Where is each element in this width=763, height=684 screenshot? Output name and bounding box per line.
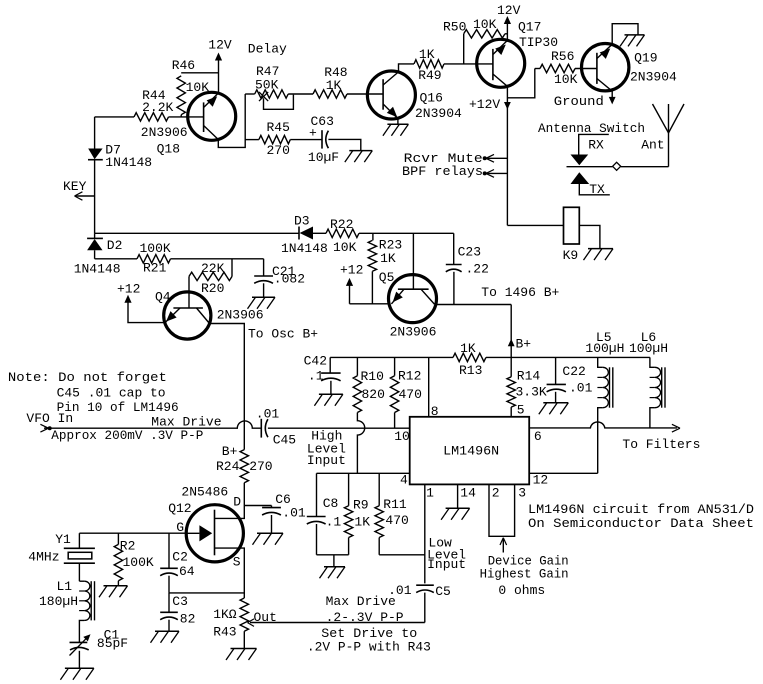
transistor Q19 2N3904	[582, 43, 678, 90]
svg-text:Out: Out	[254, 610, 277, 625]
svg-text:Ant: Ant	[641, 138, 664, 153]
wire B+ feed	[508, 305, 532, 377]
svg-text:R50: R50	[443, 19, 466, 34]
svg-text:0 ohms: 0 ohms	[498, 583, 545, 598]
svg-text:R45: R45	[267, 120, 290, 135]
svg-text:1N4148: 1N4148	[281, 241, 328, 256]
wire R56 to Q19 base	[575, 68, 597, 70]
svg-text:2N3906: 2N3906	[217, 308, 264, 323]
label Antenna Switch	[538, 121, 645, 136]
svg-text:4MHz: 4MHz	[28, 549, 59, 564]
svg-text:1K: 1K	[380, 251, 396, 266]
svg-text:K9: K9	[563, 248, 579, 263]
wire Q4 emitter to +12	[117, 281, 165, 322]
capacitor C6 .01	[244, 492, 306, 533]
wire pin 4 rail	[317, 472, 410, 487]
svg-text:1N4148: 1N4148	[105, 155, 152, 170]
svg-text:85pF: 85pF	[97, 636, 128, 651]
svg-text:C22: C22	[562, 364, 585, 379]
svg-text:B+: B+	[222, 444, 238, 459]
svg-text:R11: R11	[383, 497, 407, 512]
label Device Gain arrow	[480, 538, 569, 598]
svg-text:LM1496N: LM1496N	[443, 443, 499, 458]
svg-text:LM1496N circuit from AN531/D: LM1496N circuit from AN531/D	[528, 502, 754, 517]
svg-text:Pin 10 of LM1496: Pin 10 of LM1496	[57, 400, 179, 415]
wire to R56	[507, 69, 534, 98]
capacitor C5 .01	[388, 583, 451, 623]
resistor R46 10K	[172, 58, 219, 117]
wire drain lead	[168, 485, 244, 519]
svg-text:L1: L1	[57, 579, 73, 594]
svg-text:R14: R14	[517, 369, 541, 384]
svg-text:10K: 10K	[473, 17, 497, 32]
svg-text:R23: R23	[379, 237, 402, 252]
label Rcvr Mute arrow	[404, 151, 508, 166]
svg-text:.1: .1	[308, 368, 324, 383]
svg-text:R20: R20	[201, 281, 224, 296]
svg-text:Q4: Q4	[155, 289, 171, 304]
svg-text:R43: R43	[213, 624, 236, 639]
diode D7 1N4148	[88, 117, 152, 233]
wire R48 to Q16 base	[347, 93, 383, 95]
inductor L5 100uH	[585, 330, 624, 474]
svg-text:100µH: 100µH	[629, 341, 668, 356]
svg-text:C42: C42	[304, 354, 327, 369]
label KEY with arrow	[63, 179, 95, 200]
wire antenna switch line	[567, 166, 669, 168]
wire pins 2-3 gain strap	[489, 484, 526, 536]
svg-text:BPF relays: BPF relays	[402, 164, 483, 179]
svg-text:2N3904: 2N3904	[630, 70, 677, 85]
svg-text:1: 1	[426, 486, 434, 501]
diode D3 1N4148	[281, 214, 328, 257]
crystal Y1 4MHz	[28, 532, 95, 581]
svg-text:Q16: Q16	[420, 91, 443, 106]
wire oscillator gate line	[79, 532, 186, 534]
svg-text:Input: Input	[307, 453, 346, 468]
svg-text:3.3K: 3.3K	[516, 384, 547, 399]
svg-text:470: 470	[399, 387, 422, 402]
wire R49 to Q17 base	[444, 63, 493, 65]
relay K9	[563, 207, 580, 262]
wire +12V to K9	[507, 224, 563, 226]
svg-text:TX: TX	[589, 182, 605, 197]
resistor R50 10K	[443, 17, 507, 64]
capacitor C63 10uF	[308, 114, 339, 165]
resistor R10 820	[353, 357, 385, 412]
resistor R22 10K	[326, 217, 359, 255]
op-amp U1 LM1496N	[394, 417, 529, 485]
svg-text:On Semiconductor Data Sheet: On Semiconductor Data Sheet	[528, 516, 754, 531]
svg-text:B+: B+	[516, 337, 532, 352]
ground at C3	[151, 631, 180, 643]
wire K9 to ground	[579, 225, 600, 248]
ground at C6	[253, 533, 284, 545]
resistor R23 1K	[368, 233, 402, 303]
svg-text:C8: C8	[323, 496, 339, 511]
svg-text:D: D	[233, 495, 241, 510]
wire B+ rail	[330, 356, 650, 358]
svg-text:.22: .22	[466, 262, 489, 277]
capacitor C8 .1	[307, 473, 342, 555]
transistor Q18 2N3906	[141, 92, 236, 156]
resistor R21 100K	[137, 241, 171, 275]
svg-text:C45: C45	[273, 433, 296, 448]
capacitor C1 85pF variable	[70, 628, 129, 669]
wire Q18 collector to R45/R47 node	[218, 94, 245, 147]
svg-text:Y1: Y1	[55, 532, 71, 547]
svg-text:10: 10	[394, 429, 410, 444]
wire C2-C3 node to source	[169, 592, 244, 594]
svg-text:14: 14	[460, 486, 476, 501]
wire Q4 collector To Osc B+	[210, 324, 319, 450]
wire KEY bus	[95, 232, 299, 234]
svg-text:Approx 200mV .3V P-P: Approx 200mV .3V P-P	[51, 428, 203, 443]
svg-text:To Osc B+: To Osc B+	[248, 327, 318, 342]
svg-text:.082: .082	[274, 271, 305, 286]
resistor R24 270	[216, 444, 273, 506]
svg-text:TIP30: TIP30	[519, 35, 558, 50]
transistor Q4 2N3906	[155, 289, 264, 339]
svg-text:RX: RX	[588, 138, 604, 153]
wire KEY-line to R44	[95, 116, 134, 118]
wire Q16 collector to R49	[399, 64, 415, 72]
svg-text:10µF: 10µF	[308, 150, 339, 165]
svg-text:C23: C23	[458, 245, 481, 260]
ground at Q19 emitter	[620, 35, 645, 47]
svg-text:12V: 12V	[208, 38, 232, 53]
wire R22 to C23 corner	[359, 232, 454, 234]
svg-text:Input: Input	[427, 557, 466, 572]
svg-text:470: 470	[385, 513, 408, 528]
svg-text:+12V: +12V	[469, 97, 500, 112]
label BPF relays arrow	[402, 164, 507, 179]
svg-text:50K: 50K	[255, 78, 279, 93]
label drive notes	[307, 594, 431, 654]
svg-text:R49: R49	[418, 68, 441, 83]
svg-text:+12: +12	[117, 281, 140, 296]
svg-text:4: 4	[400, 472, 408, 487]
wire R44 to Q18 base	[169, 116, 204, 118]
svg-text:To Filters: To Filters	[622, 437, 700, 452]
svg-text:R22: R22	[330, 217, 353, 232]
ground at R43	[226, 649, 257, 661]
svg-text:5: 5	[517, 403, 525, 418]
resistor R45 270	[245, 120, 290, 158]
wire C8-R9 ground rail	[317, 555, 349, 567]
label Max Drive	[151, 414, 221, 429]
wire C45 to pin 10	[268, 428, 410, 468]
ground at R2	[99, 586, 128, 598]
ground at C22	[539, 403, 569, 415]
wire pin 6 line To Filters	[529, 422, 700, 452]
svg-text:Highest Gain: Highest Gain	[480, 566, 569, 581]
svg-text:Q17: Q17	[518, 19, 541, 34]
wire R10 hop to pin4 rail	[357, 413, 364, 474]
svg-text:2N3904: 2N3904	[415, 106, 462, 121]
svg-text:270: 270	[249, 459, 272, 474]
svg-text:R9: R9	[353, 498, 369, 513]
svg-text:D2: D2	[107, 238, 123, 253]
antenna	[641, 104, 684, 167]
svg-text:R47: R47	[256, 64, 279, 79]
resistor R14 3.3K	[507, 369, 547, 418]
svg-text:VFO In: VFO In	[26, 411, 73, 426]
svg-text:64: 64	[179, 564, 195, 579]
label VFO In	[26, 411, 73, 426]
svg-text:12: 12	[533, 472, 549, 487]
wire R45 to C63	[290, 139, 322, 141]
svg-text:.1: .1	[326, 515, 342, 530]
ground at C8/R9	[320, 567, 346, 579]
svg-text:R21: R21	[143, 260, 167, 275]
svg-text:C45 .01 cap to: C45 .01 cap to	[57, 385, 166, 400]
resistor R48 1K	[313, 65, 348, 98]
transistor Q17 TIP30	[477, 19, 558, 87]
svg-text:2.2K: 2.2K	[142, 100, 173, 115]
resistor R9 1K	[344, 473, 370, 555]
resistor R20 22K	[189, 259, 232, 296]
svg-text:R12: R12	[398, 369, 421, 384]
label Delay	[248, 42, 287, 57]
svg-text:C3: C3	[172, 594, 188, 609]
svg-text:Delay: Delay	[248, 42, 287, 57]
svg-text:R56: R56	[551, 49, 574, 64]
svg-text:Max Drive: Max Drive	[326, 594, 396, 609]
resistor R56 10K	[535, 49, 578, 87]
wire C63 to ground	[328, 139, 360, 150]
svg-text:100µH: 100µH	[585, 341, 624, 356]
svg-text:2N3906: 2N3906	[141, 125, 188, 140]
wire pin 12 line	[529, 472, 598, 487]
svg-text:S: S	[233, 555, 241, 570]
svg-text:10K: 10K	[333, 240, 357, 255]
capacitor C23 .22	[446, 233, 489, 304]
svg-text:.2V P-P with R43: .2V P-P with R43	[307, 640, 431, 655]
resistor R12 470	[390, 357, 422, 428]
inductor L6 100uH	[629, 330, 668, 428]
wire Q16 emitter to ground	[397, 119, 399, 125]
svg-text:180µH: 180µH	[39, 594, 78, 609]
ground at pin 14	[441, 508, 470, 520]
power 12V arrow at Q17	[497, 3, 521, 41]
transistor Q5 2N3906	[379, 233, 437, 339]
wire pin 8 lead	[429, 357, 439, 419]
inductor L1 180uH	[39, 579, 95, 642]
svg-text:3: 3	[518, 486, 526, 501]
capacitor C3 82	[160, 593, 195, 631]
wire Q19 emitter to ground	[612, 24, 638, 45]
svg-text:6: 6	[534, 429, 542, 444]
svg-text:R10: R10	[361, 369, 384, 384]
wire R11 to pin 1	[379, 554, 425, 556]
wire +12 to Q5 emitter	[350, 303, 390, 305]
svg-text:10K: 10K	[554, 72, 578, 87]
svg-text:Q12: Q12	[168, 501, 191, 516]
svg-text:C2: C2	[172, 549, 188, 564]
svg-text:R46: R46	[172, 58, 195, 73]
svg-text:.01: .01	[256, 407, 280, 422]
ground at K9	[584, 249, 614, 261]
wire D2 to R21	[95, 258, 137, 260]
power 12V arrow at Q18	[208, 38, 232, 93]
svg-text:D3: D3	[294, 214, 310, 229]
svg-text:R24: R24	[216, 459, 240, 474]
resistor R13 1K	[453, 341, 486, 378]
note text	[8, 370, 179, 415]
capacitor C22 .01	[547, 357, 593, 402]
svg-text:KEY: KEY	[63, 179, 87, 194]
capacitor C42 .1	[304, 354, 341, 395]
svg-text:To 1496 B+: To 1496 B+	[481, 285, 559, 300]
power +12 arrow at Q5	[340, 262, 363, 304]
svg-text:.01: .01	[282, 505, 306, 520]
svg-text:Ground: Ground	[554, 94, 604, 109]
svg-text:1KΩ: 1KΩ	[213, 607, 237, 622]
wire R20 to Q4 base	[188, 276, 190, 308]
svg-text:100K: 100K	[123, 555, 154, 570]
node junction diamond	[613, 162, 621, 170]
resistor R44 2.2K	[134, 88, 174, 121]
svg-text:R13: R13	[459, 363, 482, 378]
svg-text:1K: 1K	[354, 515, 370, 530]
svg-text:R2: R2	[120, 539, 136, 554]
ground at C63	[345, 151, 373, 163]
wire source lead	[215, 548, 245, 598]
svg-text:270: 270	[267, 143, 290, 158]
svg-text:22K: 22K	[201, 261, 225, 276]
wire pin 14 to ground	[458, 484, 477, 508]
svg-text:1N4148: 1N4148	[74, 262, 121, 277]
svg-text:Note: Do not forget: Note: Do not forget	[8, 370, 167, 385]
wire Q5 collector to B+	[436, 285, 560, 304]
svg-text:2: 2	[492, 486, 500, 501]
capacitor C2 64	[160, 533, 195, 593]
svg-text:1K: 1K	[326, 78, 342, 93]
wire C5 to R43 out	[250, 622, 425, 624]
wire pin 1 lead	[425, 484, 467, 583]
resistor R2 100K	[114, 533, 154, 586]
svg-text:2N5486: 2N5486	[181, 485, 228, 500]
ground at C21	[248, 297, 276, 309]
potentiometer R43 1K	[213, 598, 277, 649]
diode D2 1N4148	[74, 233, 123, 276]
svg-text:2N3906: 2N3906	[390, 325, 437, 340]
svg-text:.01: .01	[569, 381, 593, 396]
note LM1496N datasheet	[528, 502, 754, 531]
wire VFO input line with hop	[40, 421, 261, 432]
wire R47 to R48	[288, 93, 313, 95]
svg-text:Q5: Q5	[379, 270, 395, 285]
svg-text:.2-.3V P-P: .2-.3V P-P	[326, 610, 404, 625]
label Approx 200mV .3V P-P	[51, 428, 203, 443]
svg-text:Q18: Q18	[157, 142, 180, 157]
wire Q17 collector (+12V switched)	[469, 86, 511, 225]
svg-text:100K: 100K	[140, 241, 171, 256]
svg-text:1K: 1K	[460, 341, 476, 356]
capacitor C45 .01	[256, 407, 296, 448]
svg-text:+12: +12	[340, 262, 363, 277]
potentiometer R47 50K	[245, 64, 293, 110]
diode TX	[571, 172, 610, 197]
transistor Q12 2N5486 JFET	[176, 505, 243, 570]
svg-text:Q19: Q19	[634, 51, 657, 66]
transistor Q16 2N3904	[367, 47, 462, 121]
svg-text:12V: 12V	[497, 3, 521, 18]
svg-text:1K: 1K	[419, 47, 435, 62]
diode RX	[571, 134, 609, 165]
svg-text:C5: C5	[435, 584, 451, 599]
svg-text:+: +	[309, 126, 317, 141]
ground at Q16	[383, 124, 409, 136]
resistor R49 1K	[414, 60, 444, 68]
svg-text:820: 820	[362, 387, 385, 402]
wire R21 to C21 node	[171, 258, 264, 260]
svg-text:82: 82	[180, 611, 196, 626]
ground at C1	[60, 668, 94, 680]
ground at C42	[314, 394, 343, 406]
resistor R11 470	[375, 473, 409, 555]
capacitor C21 .082	[254, 259, 305, 298]
wire Q19 collector Ground arrow	[554, 91, 616, 109]
